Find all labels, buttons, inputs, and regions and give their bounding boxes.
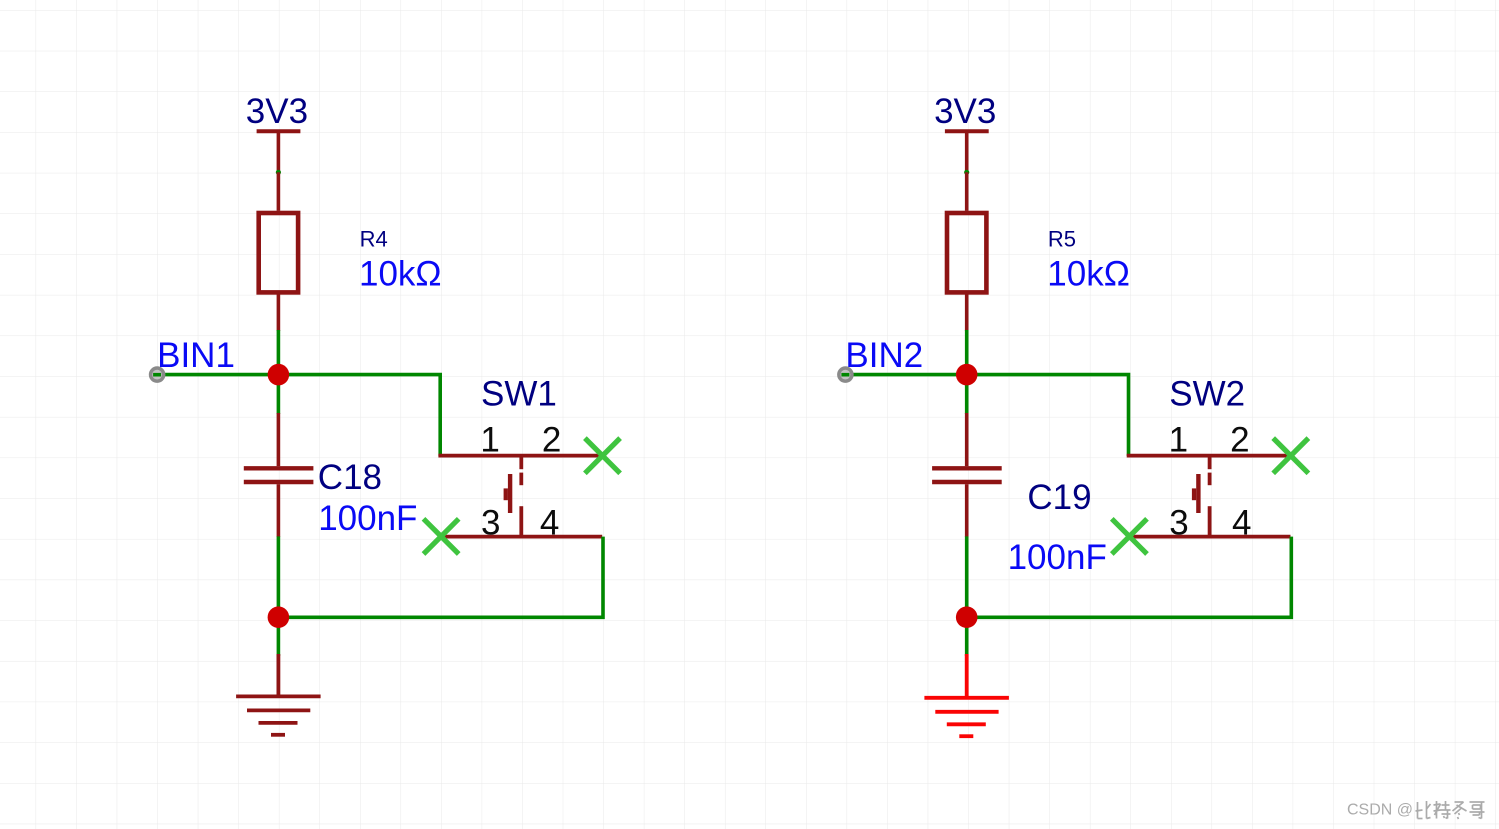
svg-text:C18: C18 [318, 458, 382, 497]
wire (power stub) [276, 170, 281, 175]
wire (switch pin4 return) [278, 537, 603, 618]
svg-text:2: 2 [542, 420, 561, 459]
wire (capacitor to ground node) [965, 536, 969, 656]
svg-text:BIN2: BIN2 [845, 336, 923, 375]
svg-text:R5: R5 [1048, 227, 1076, 252]
junction node (ground net) [268, 606, 290, 628]
resistor R5 [947, 172, 986, 331]
ground [236, 654, 321, 735]
svg-text:2: 2 [1230, 420, 1249, 459]
resistor R4 [259, 172, 298, 331]
capacitor C18 [244, 413, 314, 537]
svg-text:4: 4 [540, 503, 559, 542]
watermark CSDN [1347, 801, 1485, 819]
power flag 3V3 (right) [934, 92, 996, 172]
svg-text:10kΩ: 10kΩ [1047, 254, 1130, 293]
svg-text:10kΩ: 10kΩ [359, 254, 442, 293]
svg-text:1: 1 [480, 420, 499, 459]
wire (power stub) [964, 170, 969, 175]
wire (capacitor to ground node) [277, 536, 281, 656]
svg-text:100nF: 100nF [318, 499, 417, 538]
junction node (ground net) [956, 606, 978, 628]
svg-text:100nF: 100nF [1008, 538, 1107, 577]
svg-text:1: 1 [1169, 420, 1188, 459]
wire (net BIN1 horizontal) [157, 373, 278, 377]
ground [924, 654, 1009, 736]
svg-text:SW2: SW2 [1169, 375, 1245, 414]
svg-text:BIN1: BIN1 [157, 336, 235, 375]
wire (node to capacitor) [965, 375, 969, 414]
no-connect flag pin2 SW2 [1273, 438, 1308, 473]
svg-text:3: 3 [481, 503, 500, 542]
wire (switch pin4 return) [967, 537, 1292, 618]
net port dot BIN2 [839, 368, 852, 381]
svg-text:3V3: 3V3 [934, 92, 996, 131]
no-connect flag pin3 SW2 [1112, 519, 1147, 554]
wire (node to switch) [278, 375, 440, 456]
no-connect flag pin2 SW1 [585, 438, 620, 473]
svg-text:C19: C19 [1027, 478, 1091, 517]
switch SW1 (push button) [438, 456, 604, 537]
power flag 3V3 (left) [246, 92, 308, 172]
wire (resistor to node) [277, 330, 281, 375]
junction node BIN1 [268, 364, 290, 386]
svg-text:R4: R4 [360, 227, 388, 252]
svg-text:SW1: SW1 [481, 375, 557, 414]
wire (net BIN2 horizontal) [845, 373, 966, 377]
switch SW2 (push button) [1127, 456, 1293, 537]
wire (node to capacitor) [277, 375, 281, 414]
svg-text:4: 4 [1232, 503, 1251, 542]
svg-text:3V3: 3V3 [246, 92, 308, 131]
wire (resistor to node) [965, 330, 969, 375]
junction node BIN2 [956, 364, 978, 386]
capacitor C19 [932, 413, 1002, 537]
wire (node to switch) [967, 375, 1129, 456]
no-connect flag pin3 SW1 [424, 519, 459, 554]
svg-text:3: 3 [1169, 503, 1188, 542]
net port dot BIN1 [151, 368, 164, 381]
svg-text:CSDN @: CSDN @ [1347, 802, 1413, 819]
